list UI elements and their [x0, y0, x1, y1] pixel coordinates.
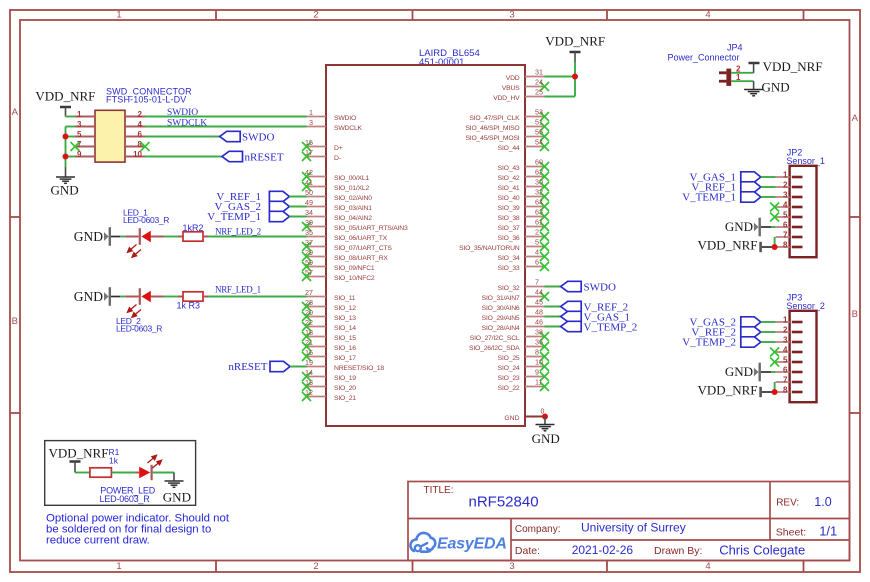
svg-text:1: 1 — [309, 108, 313, 117]
svg-text:SIO_43: SIO_43 — [498, 165, 520, 172]
svg-text:56: 56 — [535, 128, 543, 137]
svg-text:17: 17 — [305, 148, 313, 157]
U1 pin 0 (GND) — [504, 409, 545, 422]
svg-text:D+: D+ — [334, 145, 343, 152]
svg-text:SIO_13: SIO_13 — [334, 315, 356, 322]
U1 pin 63 (SIO_38) — [498, 208, 549, 222]
ground GND (SWD) — [51, 167, 79, 198]
svg-text:SIO_40: SIO_40 — [498, 195, 520, 202]
svg-text:2021-02-26: 2021-02-26 — [572, 543, 634, 557]
junction SWD pin9 — [63, 154, 69, 160]
svg-text:36: 36 — [535, 338, 543, 347]
svg-text:EasyEDA: EasyEDA — [437, 536, 507, 553]
EasyEDA logo — [410, 533, 506, 553]
U1 pin 11 (SIO_22) — [498, 378, 549, 392]
svg-text:3: 3 — [783, 336, 788, 345]
svg-text:5: 5 — [783, 211, 788, 220]
svg-text:SIO_34: SIO_34 — [498, 255, 520, 262]
svg-text:6: 6 — [783, 366, 788, 375]
svg-text:6: 6 — [783, 221, 788, 230]
svg-text:SWDO: SWDO — [584, 282, 616, 294]
svg-text:V_TEMP_2: V_TEMP_2 — [682, 337, 736, 349]
U1 pin 61 (SIO_37) — [498, 218, 549, 232]
svg-text:5: 5 — [783, 356, 788, 365]
svg-text:22: 22 — [305, 318, 313, 327]
no-connect pin 7 — [71, 142, 80, 151]
U1 pin 8 (SIO_25) — [498, 348, 549, 362]
power flag VDD_NRF (SWD pin 1) — [35, 89, 95, 117]
net flag nRESET (to U1 pin19) — [228, 361, 306, 373]
svg-text:SIO_05/UART_RTS/AIN3: SIO_05/UART_RTS/AIN3 — [334, 225, 408, 232]
note box: optional power indicator — [45, 441, 196, 506]
svg-text:GND: GND — [504, 415, 519, 422]
svg-text:Sensor_2: Sensor_2 — [786, 301, 825, 311]
U1 pin 1 (SWDIO) — [307, 108, 357, 122]
connector JP4 Power_Connector — [668, 43, 743, 86]
svg-text:SIO_22: SIO_22 — [498, 385, 520, 392]
svg-text:LED-0603_R: LED-0603_R — [116, 324, 162, 334]
svg-text:GND: GND — [74, 229, 103, 244]
svg-text:4: 4 — [783, 346, 788, 355]
svg-text:VDD: VDD — [506, 75, 520, 82]
svg-text:2: 2 — [313, 10, 318, 21]
svg-text:63: 63 — [535, 208, 543, 217]
svg-text:V_TEMP_1: V_TEMP_1 — [682, 192, 736, 204]
U1 pin 10 (SIO_24) — [498, 358, 549, 372]
svg-text:35: 35 — [305, 228, 313, 237]
svg-text:30: 30 — [535, 178, 543, 187]
svg-text:D-: D- — [334, 155, 341, 162]
svg-text:42: 42 — [305, 168, 313, 177]
svg-text:SIO_39: SIO_39 — [498, 205, 520, 212]
svg-text:SIO_09/NFC1: SIO_09/NFC1 — [334, 265, 375, 272]
svg-text:REV:: REV: — [776, 498, 799, 509]
U1 pin 34 (SIO_04/AIN2) — [305, 208, 372, 222]
U1 pin 21 (SIO_16) — [302, 338, 356, 352]
wire JP2 pin7 feed — [774, 237, 776, 247]
svg-text:46: 46 — [535, 318, 543, 327]
net flag V_GAS_1 (U1) — [545, 311, 630, 323]
net flag V_TEMP_1 (JP2 pin3) — [682, 192, 775, 204]
U1 pin 49 (SIO_03/AIN1) — [305, 198, 372, 212]
svg-text:5: 5 — [77, 130, 82, 139]
wire JP4 pin2 to VDD_NRF — [731, 72, 753, 74]
svg-text:SIO_00/XL1: SIO_00/XL1 — [334, 175, 369, 182]
svg-text:2: 2 — [313, 561, 318, 572]
svg-text:SIO_21: SIO_21 — [334, 395, 356, 402]
svg-text:SIO_03/AIN1: SIO_03/AIN1 — [334, 205, 372, 212]
svg-text:SIO_24: SIO_24 — [498, 365, 520, 372]
svg-text:Sensor_1: Sensor_1 — [786, 156, 825, 166]
svg-text:1k R3: 1k R3 — [177, 301, 201, 311]
svg-text:61: 61 — [535, 218, 543, 227]
U1 pin 56 (SIO_45/SPI_MOSI) — [465, 128, 549, 142]
connector JP3 Sensor_2 — [776, 293, 825, 403]
svg-text:19: 19 — [305, 358, 313, 367]
svg-text:SIO_42: SIO_42 — [498, 175, 520, 182]
net flag nRESET (SWD pin10) — [145, 151, 284, 163]
svg-text:1: 1 — [77, 110, 82, 119]
wire/net SWDCLK (SWD pin4 to U1 pin3) — [145, 118, 307, 128]
svg-text:SIO_14: SIO_14 — [334, 325, 356, 332]
svg-text:SIO_31/AIN7: SIO_31/AIN7 — [482, 295, 520, 302]
svg-text:SIO_12: SIO_12 — [334, 305, 356, 312]
svg-text:GND: GND — [74, 289, 103, 304]
ground GND (U1) — [532, 417, 560, 447]
U1 pin 39 (SIO_05/UART_RTS/AIN3) — [302, 218, 408, 232]
svg-text:41: 41 — [305, 178, 313, 187]
svg-text:Chris Colegate: Chris Colegate — [719, 543, 805, 558]
U1 pin 2 (SIO_36) — [498, 228, 549, 242]
svg-text:10: 10 — [535, 358, 543, 367]
U1 pin 53 (SIO_47/SPI_CLK) — [469, 108, 549, 122]
svg-text:4: 4 — [535, 248, 539, 257]
power flag VDD_NRF (U1 VDD/VDD_HV) — [545, 34, 605, 63]
svg-text:9: 9 — [77, 150, 82, 159]
net flag SWDO (SWD pin6) — [145, 131, 274, 143]
net flag V_REF_2 (U1) — [545, 301, 629, 313]
svg-text:20: 20 — [305, 308, 313, 317]
svg-text:SIO_19: SIO_19 — [334, 375, 356, 382]
junction VDD node — [572, 74, 578, 80]
wire GND rail pins 3,5,9 — [66, 127, 76, 168]
svg-text:1: 1 — [783, 171, 788, 180]
junction JP2 pin8 — [772, 244, 778, 250]
U1 pin 60 (SIO_43) — [498, 158, 549, 172]
svg-text:GND: GND — [163, 489, 191, 504]
wire VDD_NRF to U1 pins 31,25 — [545, 62, 576, 97]
U1 pin 7 (SIO_32) — [498, 278, 545, 292]
svg-text:JP4: JP4 — [727, 43, 743, 53]
no-connect pin 8 — [141, 142, 150, 151]
U1 pin 29 (SIO_08/UART_RX) — [302, 248, 388, 262]
svg-text:LED-0603_R: LED-0603_R — [123, 215, 169, 225]
svg-text:GND: GND — [725, 364, 753, 379]
svg-text:SIO_37: SIO_37 — [498, 225, 520, 232]
svg-text:21: 21 — [305, 338, 313, 347]
svg-text:3: 3 — [509, 561, 514, 572]
U1 pin 12 (SIO_21) — [302, 388, 356, 402]
ground GND (JP4) — [744, 79, 790, 96]
svg-text:3: 3 — [77, 120, 82, 129]
svg-text:13: 13 — [305, 378, 313, 387]
U1 pin 30 (SIO_41) — [498, 178, 549, 192]
svg-text:SIO_44: SIO_44 — [498, 145, 520, 152]
svg-text:A: A — [852, 113, 859, 124]
svg-text:SIO_16: SIO_16 — [334, 345, 356, 352]
svg-text:Power_Connector: Power_Connector — [668, 53, 740, 63]
svg-text:SIO_36: SIO_36 — [498, 235, 520, 242]
ground port GND (JP2 pin6) — [725, 218, 776, 237]
svg-text:7: 7 — [783, 231, 788, 240]
svg-text:SWDCLK: SWDCLK — [334, 125, 363, 132]
svg-text:SWDCLK: SWDCLK — [167, 118, 207, 128]
U1 pin 42 (SIO_00/XL1) — [302, 168, 369, 182]
svg-text:VDD_NRF: VDD_NRF — [763, 59, 823, 74]
U1 pin 27 (SIO_11) — [305, 288, 356, 302]
svg-text:NRF_LED_2: NRF_LED_2 — [215, 226, 261, 236]
svg-text:1/1: 1/1 — [819, 524, 837, 539]
svg-text:SIO_06/UART_TX: SIO_06/UART_TX — [334, 235, 388, 242]
svg-text:34: 34 — [305, 208, 313, 217]
svg-text:SIO_47/SPI_CLK: SIO_47/SPI_CLK — [469, 115, 520, 122]
svg-text:SIO_15: SIO_15 — [334, 335, 356, 342]
net flag V_GAS_2 — [215, 201, 307, 213]
U1 pin 18 (SIO_15) — [302, 328, 356, 342]
svg-text:reduce current draw.: reduce current draw. — [46, 535, 150, 547]
svg-text:44: 44 — [535, 288, 543, 297]
svg-text:3: 3 — [783, 191, 788, 200]
svg-text:VDD_NRF: VDD_NRF — [698, 238, 758, 253]
U1 pin 16 (SIO_17) — [302, 348, 356, 362]
U1 pin 22 (SIO_14) — [302, 318, 356, 332]
svg-text:SIO_10/NFC2: SIO_10/NFC2 — [334, 275, 375, 282]
svg-text:SIO_38: SIO_38 — [498, 215, 520, 222]
svg-text:8: 8 — [783, 386, 788, 395]
svg-text:VDD_NRF: VDD_NRF — [35, 89, 95, 104]
U1 pin 25 (VDD_HV) — [493, 88, 544, 102]
svg-text:SIO_46/SPI_MISO: SIO_46/SPI_MISO — [465, 125, 519, 132]
ground port GND (LED_2) — [74, 287, 120, 306]
svg-text:SIO_28/AIN4: SIO_28/AIN4 — [482, 325, 520, 332]
svg-text:62: 62 — [535, 168, 543, 177]
svg-text:SIO_30/AIN6: SIO_30/AIN6 — [482, 305, 520, 312]
LED LED_2 LED-0603_R — [116, 288, 164, 333]
U1 pin 28 (SIO_12) — [302, 298, 356, 312]
svg-text:2: 2 — [535, 228, 539, 237]
svg-text:45: 45 — [535, 298, 543, 307]
svg-text:53: 53 — [535, 108, 543, 117]
svg-text:29: 29 — [305, 248, 313, 257]
svg-text:SIO_11: SIO_11 — [334, 295, 356, 302]
power port VDD_NRF (JP3 pins7,8) — [698, 383, 775, 398]
no-connect JP3 pin4 — [770, 348, 779, 357]
wire VDD_NRF to SWD pin1 — [66, 115, 76, 118]
svg-text:1.0: 1.0 — [814, 495, 831, 509]
U1 pin 35 (SIO_06/UART_TX) — [305, 228, 388, 242]
wire JP3 pin7 feed — [774, 382, 776, 392]
net flag V_GAS_1 (JP2 pin1) — [690, 172, 776, 184]
svg-text:1: 1 — [116, 561, 121, 572]
U1 pin 20 (SIO_13) — [302, 308, 356, 322]
svg-text:SIO_01/XL2: SIO_01/XL2 — [334, 185, 369, 192]
svg-text:SIO_20: SIO_20 — [334, 385, 356, 392]
svg-text:SIO_29/AIN5: SIO_29/AIN5 — [482, 315, 520, 322]
svg-text:SIO_27/I2C_SCL: SIO_27/I2C_SCL — [470, 335, 520, 342]
svg-text:SIO_33: SIO_33 — [498, 265, 520, 272]
resistor R1 1k — [90, 447, 120, 477]
net flag SWDO (U1 pin7) — [545, 281, 616, 293]
U1 pin 24 (VBUS) — [502, 78, 549, 92]
svg-text:12: 12 — [305, 388, 313, 397]
svg-text:4: 4 — [783, 201, 788, 210]
svg-text:2: 2 — [138, 110, 143, 119]
svg-text:5: 5 — [535, 238, 539, 247]
U1 pin 48 (SIO_29/AIN5) — [482, 308, 545, 322]
wire VDD_NRF to R1 — [75, 466, 90, 473]
svg-text:SWDIO: SWDIO — [167, 108, 198, 118]
U1 pin 46 (SIO_28/AIN4) — [482, 318, 545, 332]
svg-text:Sheet:: Sheet: — [776, 527, 806, 539]
svg-text:1: 1 — [116, 10, 121, 21]
svg-text:SIO_07/UART_CTS: SIO_07/UART_CTS — [334, 245, 392, 252]
svg-text:7: 7 — [783, 376, 788, 385]
svg-text:University of Surrey: University of Surrey — [581, 521, 686, 535]
ground GND (note) — [163, 473, 191, 505]
svg-text:VDD_NRF: VDD_NRF — [49, 446, 109, 461]
svg-text:49: 49 — [305, 198, 313, 207]
wire JP4 pin1 to GND — [731, 80, 753, 82]
ground port GND (JP3 pin6) — [725, 363, 776, 382]
U1 pin 50 (SIO_02/AIN0) — [305, 188, 372, 202]
svg-text:SIO_04/AIN2: SIO_04/AIN2 — [334, 215, 372, 222]
U1 pin 36 (SIO_26/I2C_SDA) — [469, 338, 549, 352]
svg-text:4: 4 — [705, 10, 710, 21]
svg-text:39: 39 — [305, 218, 313, 227]
wire/net NRF_LED_1 (R3 to U1 pin27) — [208, 284, 307, 296]
power port VDD_NRF (JP2 pins7,8) — [698, 238, 775, 253]
svg-text:16: 16 — [305, 348, 313, 357]
svg-text:GND: GND — [725, 219, 753, 234]
resistor R3 1k — [177, 292, 209, 311]
net flag V_REF_1 (JP2 pin2) — [691, 182, 775, 194]
svg-text:Date:: Date: — [515, 545, 540, 557]
svg-text:6: 6 — [138, 130, 143, 139]
wire/net SWDIO (SWD pin2 to U1 pin1) — [145, 108, 307, 118]
U1 pin 31 (VDD) — [506, 68, 545, 82]
svg-text:B: B — [852, 309, 858, 320]
no-connect JP2 pin4 — [770, 203, 779, 212]
U1 pin 57 (SIO_10/NFC2) — [302, 268, 375, 282]
svg-text:15: 15 — [305, 138, 313, 147]
svg-text:7: 7 — [535, 278, 539, 287]
U1 pin 38 (SIO_27/I2C_SCL) — [470, 328, 549, 342]
svg-text:32: 32 — [535, 188, 543, 197]
U1 pin 59 (SIO_09/NFC1) — [302, 258, 375, 272]
svg-text:64: 64 — [535, 198, 543, 207]
svg-text:GND: GND — [762, 79, 790, 94]
svg-text:NRF_LED_1: NRF_LED_1 — [215, 284, 261, 294]
net flag V_GAS_2 (JP3 pin1) — [690, 317, 776, 329]
wire LED_2 to R3 — [164, 296, 179, 298]
svg-text:VDD_NRF: VDD_NRF — [545, 34, 605, 49]
power flag VDD_NRF (JP4) — [749, 59, 823, 74]
svg-text:nRF52840: nRF52840 — [469, 494, 539, 511]
wire/net NRF_LED_2 (R2 to U1 pin35) — [208, 226, 307, 236]
svg-text:59: 59 — [305, 258, 313, 267]
connector JP2 Sensor_1 — [776, 148, 825, 258]
svg-text:LED-0603_R: LED-0603_R — [100, 494, 151, 504]
svg-text:GND: GND — [51, 183, 79, 198]
svg-text:B: B — [12, 316, 18, 327]
svg-text:14: 14 — [305, 368, 313, 377]
ground port GND (LED_1) — [74, 227, 120, 246]
svg-text:SIO_45/SPI_MOSI: SIO_45/SPI_MOSI — [465, 135, 519, 142]
title block — [408, 482, 850, 561]
svg-text:18: 18 — [305, 328, 313, 337]
U1 pin 13 (SIO_20) — [302, 378, 356, 392]
note caption — [46, 513, 230, 547]
U1 pin 6 (SIO_33) — [498, 258, 549, 272]
svg-text:54: 54 — [535, 138, 543, 147]
svg-text:1: 1 — [783, 316, 788, 325]
connector SWD_CONNECTOR FTSH-105-01-L-DV — [75, 87, 192, 162]
svg-text:NRESET/SIO_18: NRESET/SIO_18 — [334, 365, 384, 372]
U1 pin 37 (SIO_07/UART_CTS) — [302, 238, 392, 252]
svg-text:SIO_23: SIO_23 — [498, 375, 520, 382]
junction U1 GND — [542, 414, 548, 420]
svg-text:38: 38 — [535, 328, 543, 337]
svg-text:3: 3 — [309, 118, 313, 127]
svg-text:SIO_25: SIO_25 — [498, 355, 520, 362]
svg-text:V_TEMP_1: V_TEMP_1 — [207, 211, 261, 223]
svg-text:SWDO: SWDO — [242, 132, 274, 144]
U1 pin 51 (SIO_46/SPI_MISO) — [465, 118, 549, 132]
net flag V_TEMP_1 — [207, 211, 306, 223]
svg-text:51: 51 — [535, 118, 543, 127]
svg-text:57: 57 — [305, 268, 313, 277]
wire GND to LED_1 — [120, 236, 125, 238]
svg-text:VBUS: VBUS — [502, 85, 520, 92]
LED POWER_LED LED-0603_R — [100, 455, 162, 504]
svg-text:60: 60 — [535, 158, 543, 167]
svg-text:1k: 1k — [109, 456, 119, 466]
svg-text:4: 4 — [138, 120, 143, 129]
U1 pin 4 (SIO_34) — [498, 248, 549, 262]
net flag V_REF_2 (JP3 pin2) — [691, 327, 775, 339]
IC U1 LAIRD_BL654 451-00001 — [326, 48, 525, 426]
svg-text:3: 3 — [509, 10, 514, 21]
U1 pin 44 (SIO_31/AIN7) — [482, 288, 549, 302]
svg-text:SIO_35/NAUTORUN: SIO_35/NAUTORUN — [459, 245, 520, 252]
svg-text:6: 6 — [535, 258, 539, 267]
svg-text:4: 4 — [705, 561, 710, 572]
svg-text:24: 24 — [535, 78, 543, 87]
svg-text:37: 37 — [305, 238, 313, 247]
svg-text:2: 2 — [783, 326, 788, 335]
no-connect JP2 pin5 — [770, 213, 779, 222]
svg-text:A: A — [12, 107, 19, 118]
svg-text:SIO_02/AIN0: SIO_02/AIN0 — [334, 195, 372, 202]
svg-text:9: 9 — [535, 368, 539, 377]
U1 pin 41 (SIO_01/XL2) — [302, 178, 369, 192]
U1 pin 5 (SIO_35/NAUTORUN) — [459, 238, 549, 252]
svg-text:GND: GND — [532, 431, 560, 446]
svg-text:FTSH-105-01-L-DV: FTSH-105-01-L-DV — [106, 94, 186, 104]
svg-text:2: 2 — [783, 181, 788, 190]
svg-text:VDD_HV: VDD_HV — [493, 95, 520, 102]
svg-text:25: 25 — [535, 88, 543, 97]
svg-text:V_TEMP_2: V_TEMP_2 — [584, 322, 638, 334]
svg-text:SWDIO: SWDIO — [334, 115, 356, 122]
U1 pin 32 (SIO_40) — [498, 188, 549, 202]
svg-text:11: 11 — [535, 378, 542, 387]
svg-text:VDD_NRF: VDD_NRF — [698, 383, 758, 398]
LED LED_1 LED-0603_R — [123, 208, 169, 258]
junction SWD pin5 — [63, 134, 69, 140]
U1 pin 17 (D-) — [302, 148, 341, 162]
svg-text:Company:: Company: — [515, 524, 561, 535]
resistor R2 1k — [178, 223, 208, 241]
svg-text:SIO_17: SIO_17 — [334, 355, 356, 362]
U1 pin 3 (SWDCLK) — [307, 118, 363, 132]
svg-text:Drawn By:: Drawn By: — [654, 545, 702, 557]
wire R1 to POWER_LED — [111, 472, 135, 474]
svg-text:48: 48 — [535, 308, 543, 317]
U1 pin 62 (SIO_42) — [498, 168, 549, 182]
net flag V_TEMP_2 (U1) — [545, 321, 638, 333]
net flag V_TEMP_2 (JP3 pin3) — [682, 337, 775, 349]
